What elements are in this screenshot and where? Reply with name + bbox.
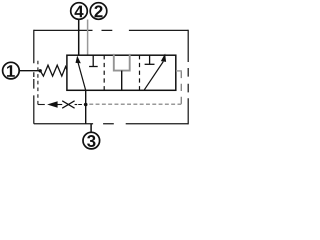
port circle 4	[71, 3, 88, 20]
wire valve bottom to envelope bottom	[85, 90, 87, 124]
cartridge envelope top edge	[34, 29, 188, 31]
wire port 4	[78, 20, 80, 56]
pilot black dashes to junction dot	[78, 104, 86, 106]
left box blocked port T stem	[92, 55, 94, 66]
middle box gray pocket	[114, 54, 130, 71]
cartridge envelope bottom edge	[34, 123, 188, 125]
spring	[40, 65, 67, 76]
port circle 1	[3, 62, 20, 79]
pilot dashed line from junction down	[37, 58, 39, 105]
left box flow arrow head	[76, 56, 81, 64]
left box flow arrow shaft	[78, 63, 86, 91]
valve body	[67, 55, 176, 90]
pilot gray branch riser dashes	[180, 72, 182, 104]
orifice connector right stub	[75, 104, 78, 106]
port circle 3	[83, 132, 100, 149]
junction dot pilot to port 3	[84, 103, 88, 107]
port circle 2	[90, 3, 107, 20]
cartridge envelope right edge	[187, 30, 189, 125]
cartridge envelope left edge	[33, 30, 35, 124]
right box flow arrow shaft	[144, 62, 163, 91]
wire port 3 stub	[90, 124, 92, 132]
orifice X	[62, 101, 74, 108]
junction dot on port 1 line	[39, 69, 42, 72]
pilot arrow pointing left	[47, 101, 58, 108]
right box flow arrow head	[161, 54, 166, 62]
wire port 2 (gray)	[87, 20, 89, 56]
wire port 1 to junction	[19, 70, 40, 72]
right box blocked port T stem	[149, 55, 151, 64]
pilot gray dashed line to right	[89, 103, 181, 105]
left box blocked port T bar	[89, 66, 98, 68]
middle box drain line	[121, 71, 123, 91]
orifice connector left stub	[57, 104, 62, 106]
pilot gray branch stub to valve	[176, 70, 182, 72]
pilot corner dash	[38, 104, 45, 106]
right box blocked port T bar	[145, 63, 155, 65]
position divider dashed right	[139, 55, 141, 90]
position divider dashed left	[103, 55, 105, 90]
